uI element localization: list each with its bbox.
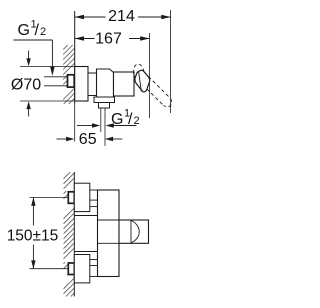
dim 214 right extension — [170, 10, 172, 113]
svg-text:214: 214 — [108, 8, 135, 25]
thread callout arrows (G1/2 bottom) — [77, 125, 93, 127]
bottom union nut — [68, 263, 74, 275]
bottom escutcheon block — [74, 255, 90, 283]
thread callout left arrow — [92, 123, 100, 127]
dim 65 right arrow — [105, 137, 113, 141]
outlet face chord — [130, 220, 132, 243]
outlet nipple — [99, 103, 110, 109]
dim 167 left arrow — [75, 36, 84, 41]
O70 top arrow — [26, 58, 30, 66]
body back lines — [74, 215, 97, 217]
top union nut — [68, 192, 74, 204]
top escutcheon block — [74, 183, 90, 211]
supply pipe in wall — [44, 77, 68, 86]
dim 214 right arrow — [161, 15, 170, 20]
dim 167 line — [75, 38, 95, 40]
G1/2 union socket — [68, 75, 75, 87]
dim 167 right arrow — [140, 36, 149, 41]
lever dashed (raised position) — [133, 64, 171, 107]
dim 65 arrow shafts — [57, 138, 69, 140]
G1/2 top label underline + leader — [14, 39, 53, 41]
body lines at outlet level — [98, 219, 120, 221]
bottom outlet flange — [94, 97, 115, 103]
mixer body (bottom view) — [98, 190, 120, 277]
mixer body — [97, 69, 114, 97]
svg-text:150±15: 150±15 — [7, 228, 59, 245]
svg-text:G: G — [18, 22, 30, 39]
dim 167 right extension — [149, 33, 151, 118]
outlet face arc — [131, 220, 139, 243]
svg-text:Ø70: Ø70 — [11, 77, 41, 94]
dim O70 arrow shafts — [28, 51, 30, 60]
dim 65 left arrow — [66, 137, 74, 141]
dim 214 line — [75, 16, 106, 18]
dim 150 bottom arrow — [31, 260, 35, 268]
wall hatching (bottom view) — [64, 172, 75, 297]
wall hatching (top view) — [63, 45, 74, 104]
O70 bottom arrow — [26, 101, 30, 109]
wall surface line (bottom view) — [73, 172, 75, 297]
dim 214 left arrow — [75, 15, 84, 20]
svg-text:/: / — [128, 111, 133, 128]
dim 150 extension lines — [30, 196, 69, 198]
wall surface line (top view) — [74, 11, 76, 104]
dim 150 line — [32, 197, 34, 225]
wall extension line down — [74, 104, 76, 142]
outlet thread stub — [100, 108, 102, 132]
svg-text:2: 2 — [134, 115, 140, 127]
lever base knob solid — [135, 70, 150, 92]
dim 150 top arrow — [31, 197, 35, 205]
svg-text:65: 65 — [79, 131, 97, 148]
cartridge collar — [114, 72, 135, 96]
bottom connector — [90, 259, 98, 261]
thread callout right arrow — [106, 123, 114, 127]
neck — [88, 73, 97, 96]
dim O70 extension lines — [20, 66, 75, 68]
G1/2 top leader arrow — [50, 67, 55, 76]
outlet cylinder — [119, 220, 149, 243]
svg-text:G: G — [111, 111, 123, 128]
svg-text:/: / — [35, 22, 40, 39]
escutcheon flange (side view) — [75, 67, 88, 102]
svg-text:2: 2 — [40, 26, 46, 38]
top connector — [90, 199, 98, 201]
svg-text:167: 167 — [95, 31, 122, 48]
